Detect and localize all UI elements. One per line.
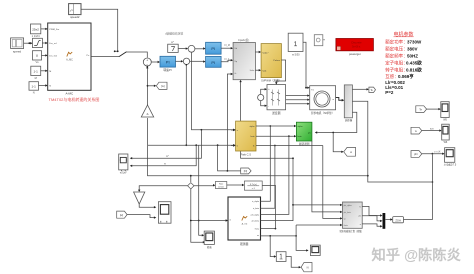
svg-text:定子电阻：0.435欧: 定子电阻：0.435欧: [385, 59, 422, 66]
svg-text:Park C.S: Park C.S: [241, 152, 252, 156]
small source block with circle icon: [314, 35, 325, 46]
svg-text:2/7.5米: 2/7.5米: [434, 150, 440, 154]
svg-text:W6: W6: [444, 141, 448, 144]
from tag w2: [411, 127, 422, 134]
wire sum to speed PI: [151, 61, 160, 63]
svg-text:phi_alpha: phi_alpha: [251, 214, 260, 216]
svg-text:is_alpha: is_alpha: [252, 201, 260, 203]
svg-text:转速PI: 转速PI: [163, 68, 171, 72]
svg-text:TM4T02与电机转速的关系图: TM4T02与电机转速的关系图: [49, 96, 100, 102]
wire torque PI to ipark port2: [221, 58, 233, 62]
svg-text:DC_Vol: DC_Vol: [49, 56, 57, 58]
wires calc block to mux: [362, 206, 382, 227]
scope w and w*: [119, 154, 128, 174]
sum block flux error: [188, 45, 195, 52]
svg-text:25e2: 25e2: [32, 27, 39, 31]
wire park out3 right to mesh: [256, 145, 323, 147]
inverter block: [267, 85, 286, 115]
wire rate transition up to scope column: [404, 153, 434, 220]
svg-text:w: w: [415, 130, 417, 133]
wire A-MC output Pu to manual switch lower input: [91, 56, 119, 58]
svg-text:phi: phi: [414, 152, 418, 156]
wire ramp to A-MC port2: [42, 42, 47, 44]
small scope3 bottom right: [310, 245, 320, 255]
svg-text:PI: PI: [211, 60, 215, 65]
svg-text:异步电机（SI单位）: 异步电机（SI单位）: [311, 111, 334, 115]
svg-text:powergui: powergui: [349, 52, 361, 56]
wire V const to A-MC port3: [42, 54, 48, 56]
svg-text:转矩和磁链计算（离散）: 转矩和磁链计算（离散）: [339, 229, 363, 233]
scope2 (speed scope): [158, 202, 171, 224]
bus selector: [344, 85, 352, 122]
wire motor measurement bus to bus selector: [336, 98, 344, 101]
svg-text:逆变器: 逆变器: [272, 111, 281, 115]
scope w: [442, 124, 450, 144]
wire current line2 to park input2: [148, 144, 236, 146]
sum block torque error: [183, 58, 189, 64]
sum block speed error: [143, 58, 151, 66]
svg-text:5e-06 s.: 5e-06 s.: [352, 46, 361, 49]
svg-text:1-1: 1-1: [34, 70, 39, 74]
wire N const to A-MC port5: [39, 84, 48, 86]
svg-text:N: N: [33, 91, 35, 95]
motor parameter annotation: [385, 31, 422, 95]
svg-text:w*: w*: [171, 41, 174, 44]
wire bus selector flux output to flux observer input: [315, 112, 357, 133]
wire park out1 to flux observer: [256, 125, 296, 127]
gain down to scope: [134, 192, 157, 208]
svg-text:N: N: [307, 265, 309, 269]
manual switch: [114, 50, 130, 56]
svg-text:转速: 转速: [207, 245, 212, 249]
wire tap down to scope w* input: [130, 130, 202, 160]
svg-text:w*: w*: [166, 155, 169, 158]
DC voltage source: [258, 88, 267, 107]
junction diamond: [188, 183, 194, 189]
svg-text:w: w: [164, 163, 166, 166]
svg-text:Discrete: Discrete: [351, 41, 362, 45]
wire flux sum down to park current input1: [192, 52, 236, 131]
svg-text:1 1/2/4: 1 1/2/4: [32, 34, 40, 38]
scope speed2: [69, 4, 81, 20]
wire flux sum to flux PI: [195, 47, 206, 49]
from tag Te2: [416, 106, 427, 113]
wire feedback line down into diamond: [190, 175, 192, 182]
flux observer green block: [296, 122, 312, 146]
svg-text:K Ts(z): K Ts(z): [250, 184, 257, 186]
torque PI controller: [206, 56, 222, 67]
wire load torque to motor Tm: [303, 42, 310, 89]
gain rad2rpm (pointing up): [141, 105, 153, 117]
svg-text:Ud: Ud: [235, 48, 238, 50]
bottom speed scope: [204, 231, 214, 249]
flux reference constant: [165, 32, 184, 53]
wire torque sum to torque PI: [190, 60, 206, 62]
source block speed (From Workspace): [11, 38, 24, 53]
svg-text:知乎 @陈陈炎: 知乎 @陈陈炎: [372, 246, 462, 264]
feedback horizontal line to speed loop: [148, 118, 368, 176]
svg-text:P=2: P=2: [385, 90, 394, 95]
wire tap down to scope w input: [130, 145, 196, 167]
svg-text:Pulses: Pulses: [273, 60, 280, 62]
wire diamond line to observer input: [190, 219, 228, 221]
wire green block bottom to calc block: [312, 141, 343, 213]
load torque constant block: [288, 33, 303, 56]
svg-text:转子电阻：0.816欧: 转子电阻：0.816欧: [385, 66, 422, 73]
wire bus selector to goto Te: [352, 88, 369, 90]
svg-text:w: w: [350, 151, 352, 154]
svg-text:th: th: [235, 72, 237, 75]
wire tap down to speed scope top input: [198, 145, 204, 236]
svg-text:A-MC: A-MC: [65, 92, 73, 96]
wire flux ref to flux sum: [178, 47, 188, 49]
wire bus selector speed output down to feedback line: [352, 101, 433, 183]
svg-text:phi_beta: phi_beta: [252, 220, 260, 223]
wire from tag to scope2: [127, 215, 156, 219]
svg-text:额定频率：50HZ: 额定频率：50HZ: [385, 52, 418, 59]
asynchronous machine block: [310, 86, 336, 115]
wire speed PI to torque sum: [176, 60, 184, 62]
wire from below into ipark bottom port: [239, 80, 293, 159]
svg-text:Uq: Uq: [235, 61, 238, 63]
rate transition small block: [393, 217, 404, 223]
svg-text:选择器: 选择器: [345, 118, 353, 122]
wire M const to A-MC port4: [41, 70, 48, 72]
svg-text:Uabc: Uabc: [250, 70, 255, 72]
svg-text:Fl_M: Fl_M: [225, 44, 230, 47]
svg-text:theta: theta: [344, 224, 348, 227]
unit delay block: [276, 252, 286, 262]
wire park out2 to flux observer: [256, 135, 296, 137]
ramp / rate block: [33, 38, 43, 47]
svg-text:th: th: [253, 145, 255, 148]
constant block V: [33, 51, 42, 64]
observer subsystem: [228, 197, 261, 246]
wire flux PI to ipark port1: [221, 44, 233, 49]
svg-text:1-1: 1-1: [32, 85, 37, 89]
svg-text:Te: Te: [359, 206, 361, 208]
park transform block: [236, 121, 256, 156]
inverse park subsystem: [233, 38, 255, 80]
wire rate limiter to discrete integrator: [227, 184, 245, 186]
svg-text:[N]: [N]: [244, 169, 248, 173]
wire mesh vertical to calc block: [323, 146, 343, 220]
wire integrator output right and down: [262, 185, 276, 229]
wire junction down to small scope3: [296, 225, 309, 252]
svg-text:ZOH: ZOH: [395, 219, 401, 223]
constant block M: [31, 66, 41, 80]
wire observer out5 right: [261, 228, 276, 230]
constant block N: [29, 82, 39, 95]
powergui block: [336, 39, 374, 57]
rate limiter block: [215, 182, 226, 189]
wire observer out1 up to flux mesh: [261, 125, 272, 201]
svg-text:额定电压：380V: 额定电压：380V: [385, 45, 417, 52]
svg-text:w 5/30: w 5/30: [292, 53, 300, 57]
svg-text:phi_alpha: phi_alpha: [344, 205, 352, 207]
svg-text:磁链观测: 磁链观测: [299, 142, 310, 146]
wire mux to rate transition: [385, 218, 392, 220]
svg-text:观测器: 观测器: [240, 242, 249, 246]
wire torque sum feedback from current line2: [147, 64, 188, 146]
svg-text:额定功率：3730W: 额定功率：3730W: [385, 38, 422, 45]
goto tag wm (rotated): [344, 147, 356, 156]
wire observer out6 right with branch to unit delay: [261, 235, 298, 258]
svg-text:Tm: Tm: [311, 90, 314, 92]
wire diamond down to speed scope lower input: [191, 189, 205, 243]
svg-text:M: M: [49, 71, 51, 73]
wire observer out2 up to mesh: [261, 145, 276, 209]
three phase wires inverter to motor: [286, 94, 310, 105]
svg-text:小电机2/7.5: 小电机2/7.5: [444, 163, 457, 167]
wire manual switch to speed sum: [130, 52, 148, 58]
svg-text:SVPWM（离散）: SVPWM（离散）: [261, 79, 281, 83]
wire tag w2 to scope w: [422, 128, 442, 132]
svg-text:Cpark(反): Cpark(反): [238, 38, 249, 42]
wire from tag N left and up to ipark theta: [218, 73, 241, 172]
from tag w bottom: [117, 211, 127, 218]
speed PI controller: [160, 56, 176, 72]
mux: [383, 213, 386, 229]
svg-text:d轴磁链给定值: d轴磁链给定值: [165, 32, 184, 36]
svg-text:is_beta: is_beta: [253, 207, 260, 210]
wire gain to speed sum: [146, 66, 148, 105]
wire diamond left to down gain: [138, 186, 188, 192]
flux PI controller: [206, 42, 222, 54]
svg-text:Limiter: Limiter: [218, 185, 224, 188]
svg-text:-K-: -K-: [146, 113, 149, 116]
discrete transfer fcn block: [244, 181, 262, 190]
torque flux calc block: [339, 202, 363, 233]
svg-text:w与w*: w与w*: [120, 170, 127, 174]
wires into park block: [231, 129, 236, 147]
wire PWM const to A-MC port1: [41, 28, 48, 30]
svg-text:speed2: speed2: [70, 15, 80, 19]
wire observer out3 up to mesh: [261, 135, 290, 214]
svg-text:[w]: [w]: [120, 213, 124, 217]
svg-text:alpha: alpha: [298, 126, 304, 128]
svg-text:speed: speed: [13, 49, 22, 53]
SVPWM block: [261, 44, 281, 83]
wire observer out4 up to mesh: [261, 157, 294, 220]
wire unit delay to goto tag N2: [286, 257, 301, 269]
svg-text:Fre_ref: Fre_ref: [49, 42, 56, 45]
from tag phi: [411, 151, 422, 158]
svg-text:A_Ob: A_Ob: [242, 223, 248, 226]
wire speed source to ramp block: [24, 42, 33, 44]
goto tag Te: [369, 87, 376, 92]
wire junction down to goto tag wm: [333, 133, 344, 154]
wire to goto w: [148, 85, 157, 87]
svg-text:M: M: [35, 76, 37, 80]
wire tag Te2 to scope Te: [427, 108, 441, 110]
svg-text:Vo: Vo: [35, 60, 39, 64]
wire ipark Uabc to SVPWM lower: [255, 69, 261, 71]
subsystem A-MC: [48, 23, 91, 96]
svg-text:[w]: [w]: [161, 84, 165, 88]
svg-text:PI: PI: [211, 46, 215, 51]
svg-text:phi_beta: phi_beta: [344, 211, 351, 214]
wire mesh to calc in1: [292, 204, 342, 206]
goto tag N2: [301, 263, 312, 272]
svg-text:PWM_Fre: PWM_Fre: [49, 28, 60, 31]
svg-text:PI: PI: [166, 59, 170, 64]
scope phi: [444, 148, 457, 167]
constant block PWM frequency: [31, 24, 41, 38]
wire ipark to SVPWM upper: [255, 51, 261, 53]
wire into diamond from rate limiter input line: [194, 184, 216, 186]
wire SVPWM pulses to inverter gate: [276, 60, 285, 84]
wire tag phi to scope phi: [422, 150, 445, 155]
wire speed2 down to manual switch upper input: [81, 9, 118, 51]
goto tag w: [156, 82, 167, 89]
rate limiter chain: from tag N: [241, 168, 251, 174]
scope Te: [441, 102, 449, 122]
svg-text:A_MC: A_MC: [66, 59, 73, 62]
svg-text:W5: W5: [443, 119, 447, 122]
wire mesh to calc in4: [296, 224, 342, 226]
svg-text:Uabc*: Uabc*: [263, 52, 269, 54]
